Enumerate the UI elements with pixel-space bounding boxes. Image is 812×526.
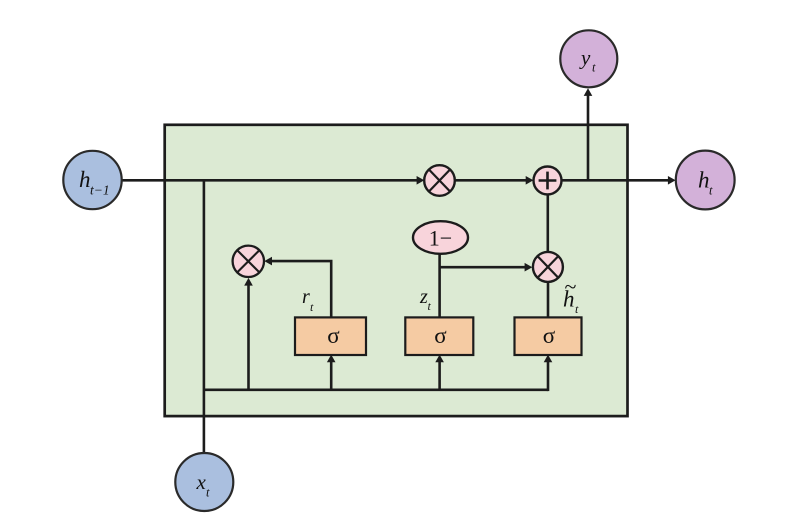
wire: arrow up into reset multiply (244, 278, 253, 390)
1-minus ellipse (413, 221, 468, 254)
label z_t (419, 286, 432, 313)
wire: arrow up into sigma 1 (327, 355, 336, 390)
wire: from multiply to plus (455, 176, 534, 185)
wire: x_t vertical line (203, 180, 206, 453)
svg-text:~: ~ (565, 274, 577, 299)
sigma box 1 (reset gate) (295, 317, 366, 355)
wire: inner bottom horizontal bus (204, 388, 548, 391)
node h_{t-1} input circle (63, 151, 121, 209)
sigma box 2 (update gate) (405, 317, 473, 355)
node x_t input circle (175, 453, 233, 511)
wire: arrow up into sigma 2 (435, 355, 444, 390)
svg-text:σ: σ (543, 323, 556, 348)
candidate multiply (circle-cross) (533, 252, 563, 282)
update multiply on main line (circle-cross) (424, 165, 455, 196)
wire: candidate multiply up to plus (546, 194, 549, 252)
wire: sigma1 output up and left into reset multiply (264, 257, 331, 318)
node y_t output circle (560, 30, 617, 87)
wire: arrow up into sigma 3 (544, 355, 553, 392)
svg-text:r: r (302, 286, 310, 308)
node h_t output circle (676, 151, 735, 210)
adder (circle-plus) (534, 167, 562, 195)
GRU cell body (green rectangle) (165, 125, 628, 416)
svg-text:h: h (79, 167, 91, 192)
wire: main horizontal h line from h_{t-1} to reset-multiply (120, 176, 424, 185)
sigma box 3 (candidate) (515, 317, 582, 355)
svg-text:t: t (206, 486, 210, 500)
svg-text:y: y (579, 46, 591, 70)
svg-text:t−1: t−1 (90, 183, 110, 198)
svg-text:h: h (698, 168, 710, 193)
wire: branch right into candidate multiply (440, 263, 533, 272)
svg-text:t: t (709, 184, 713, 198)
label h-tilde_t (563, 274, 579, 316)
wire: from plus to h_t output (562, 176, 676, 185)
reset multiply (circle-cross) (233, 246, 264, 277)
svg-text:σ: σ (434, 323, 447, 348)
wire: sigma3 output up into candidate multiply (547, 282, 550, 318)
svg-text:σ: σ (327, 323, 340, 348)
svg-text:x: x (196, 470, 207, 494)
svg-text:1−: 1− (429, 226, 452, 251)
label r_t (302, 286, 314, 314)
svg-text:t: t (592, 61, 596, 75)
wire: branch up to y_t (584, 88, 593, 180)
wire: sigma2 output up to 1-minus (438, 254, 441, 318)
